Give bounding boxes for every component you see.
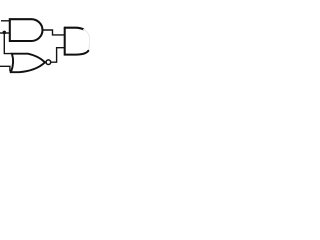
nor-gate U2 body (OR shape) [11,54,45,72]
U2 output inversion bubble [46,60,51,65]
wire input A (top, into AND U1 pin 1) [1,20,10,22]
U2 output tip junction [44,61,46,63]
wire input B (into AND U1 pin 2) [0,32,10,34]
wire branch B down to NOR U2 pin 1 [4,33,11,54]
node junction dot on wire B [3,31,7,35]
background [0,0,90,90]
and-gate U3 (right, arc fades in the middle) [65,28,84,30]
wire U1 output with step down to AND U3 pin 1 [43,30,65,35]
wire U2 output up to AND U3 pin 2 [51,48,64,63]
wire input C (into NOR U2 pin 2, with jog down) [0,66,10,71]
and-gate U1 [10,19,43,41]
